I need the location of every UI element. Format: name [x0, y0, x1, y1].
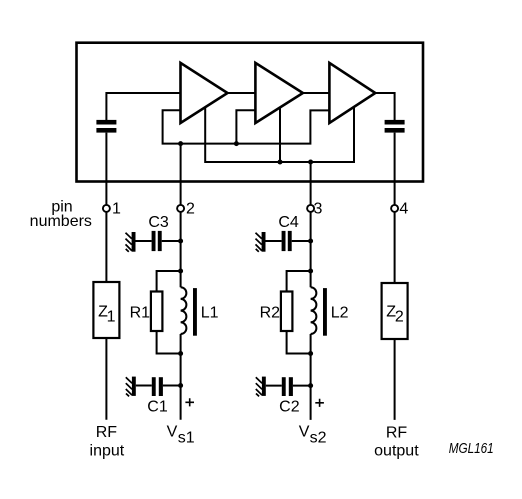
node: C1 junction	[178, 383, 183, 388]
svg-text:4: 4	[399, 201, 408, 218]
wire A1 out to A2 in	[228, 92, 256, 94]
wire A2 out to A3 in	[303, 92, 330, 94]
svg-text:s2: s2	[310, 429, 327, 446]
op-amp A1	[181, 63, 228, 123]
wire R1 branch	[157, 271, 181, 354]
capacitor (internal, left) wire	[106, 93, 180, 120]
capacitor C3	[136, 240, 152, 242]
wire pin 2 drop from upper bus	[180, 144, 182, 205]
svg-text:L1: L1	[201, 305, 219, 322]
svg-text:V: V	[299, 424, 310, 441]
ground (C4)	[256, 232, 266, 252]
wire R2 branch	[287, 271, 311, 354]
junction dots inside box	[178, 141, 313, 164]
wire pin 3 drop from lower bus	[310, 162, 312, 205]
pin 1 terminal circle	[103, 205, 110, 212]
inductor L2 coil	[311, 287, 317, 334]
op-amp A2	[255, 63, 303, 123]
ground (C1)	[126, 377, 136, 397]
svg-text:2: 2	[186, 201, 195, 218]
wire A1 hypotenuse drop and lower bus to A3	[205, 107, 354, 162]
svg-text:2: 2	[395, 308, 404, 325]
inductor L1 core bar	[193, 288, 197, 336]
svg-text:V: V	[167, 424, 178, 441]
svg-text:C1: C1	[147, 399, 168, 416]
node: parallel top junction (pin3)	[308, 269, 313, 274]
inductor L1 coil	[181, 287, 187, 334]
op-amp A3	[329, 63, 375, 123]
svg-text:s1: s1	[178, 429, 195, 446]
wire from right cap to pin 4	[394, 133, 396, 205]
resistor R1	[151, 292, 163, 332]
pin 4 terminal circle	[391, 205, 398, 212]
resistor R2	[281, 292, 293, 332]
capacitor (internal, right) wire	[375, 93, 394, 120]
wire feedback loop A1 and upper bus to A3	[163, 110, 330, 143]
wire from left cap to pin 1	[105, 133, 107, 205]
wire pin 3 vertical (upper part)	[310, 211, 312, 287]
svg-text:MGL161: MGL161	[449, 441, 494, 457]
wire pin 2 vertical (lower part)	[180, 334, 182, 420]
svg-text:C3: C3	[148, 214, 169, 231]
svg-text:C4: C4	[278, 214, 299, 231]
capacitor C4	[266, 240, 282, 242]
svg-text:C2: C2	[279, 399, 300, 416]
svg-text:RF: RF	[96, 424, 118, 441]
capacitor C1	[136, 385, 152, 387]
node: parallel bottom junction (pin3)	[308, 351, 313, 356]
node: C2 junction	[308, 383, 313, 388]
svg-text:R1: R1	[130, 305, 151, 322]
wire pin 2 vertical (upper part)	[180, 211, 182, 287]
ground (C2)	[256, 377, 266, 397]
svg-text:output: output	[374, 442, 419, 459]
wire A2 hypotenuse drop	[279, 108, 281, 162]
plus sign (Vs2)	[315, 399, 324, 407]
wire pin 3 vertical (lower part)	[310, 334, 312, 420]
ground (C3)	[126, 232, 136, 252]
node: parallel bottom junction (pin2)	[178, 351, 183, 356]
inductor L2 core bar	[323, 288, 327, 336]
svg-text:RF: RF	[386, 424, 408, 441]
wire pin 1 to Z1	[105, 211, 107, 282]
pin 2 terminal circle	[177, 205, 184, 212]
capacitor C2	[266, 385, 282, 387]
svg-text:L2: L2	[331, 305, 349, 322]
svg-text:1: 1	[112, 201, 121, 218]
impedance Z2 box	[382, 283, 408, 339]
wire Z1 to RF input	[105, 338, 107, 420]
svg-text:R2: R2	[260, 305, 281, 322]
node: C4 junction	[308, 239, 313, 244]
svg-text:numbers: numbers	[30, 213, 92, 230]
svg-text:input: input	[90, 443, 125, 460]
svg-text:1: 1	[107, 308, 116, 325]
node: C3 junction	[178, 239, 183, 244]
impedance Z1 box	[93, 282, 119, 338]
IC package box	[77, 43, 424, 182]
wire feedback riser A2	[236, 110, 255, 143]
wire Z2 to RF output	[394, 339, 396, 420]
plus sign (Vs1)	[185, 398, 194, 406]
svg-text:3: 3	[314, 201, 323, 218]
capacitor (internal, left) plates	[96, 120, 116, 133]
capacitor (internal, right) plates	[385, 120, 405, 133]
wire pin 4 to Z2	[394, 211, 396, 283]
node: parallel top junction (pin2)	[178, 269, 183, 274]
pin 3 terminal circle	[307, 205, 314, 212]
